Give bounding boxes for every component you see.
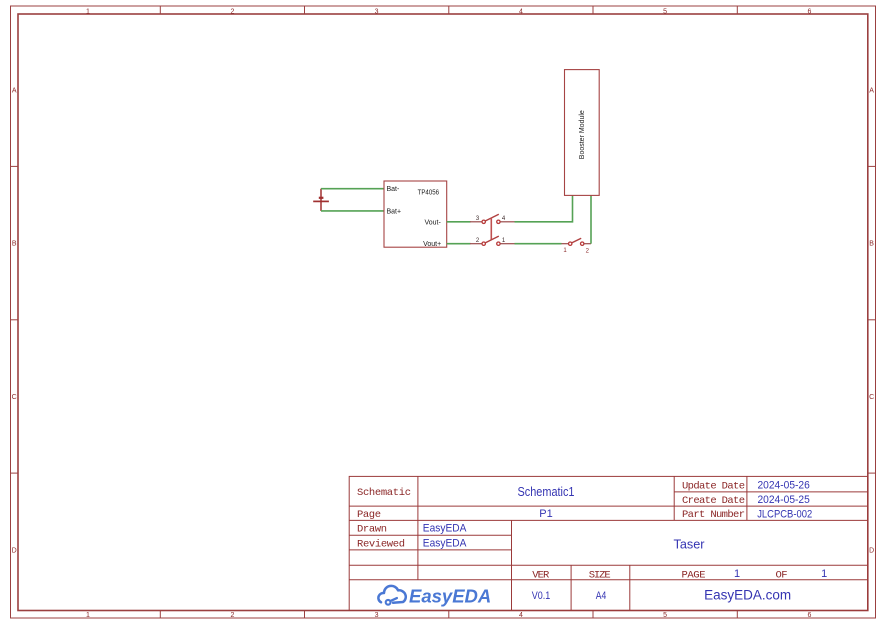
svg-text:5: 5 xyxy=(663,9,667,16)
svg-text:V0.1: V0.1 xyxy=(532,590,551,602)
wire Vout+ to switch xyxy=(447,243,471,245)
switch S1 DPST xyxy=(470,214,515,245)
svg-text:EasyEDA: EasyEDA xyxy=(423,523,467,535)
svg-text:Vout-: Vout- xyxy=(424,219,441,226)
svg-text:Create Date: Create Date xyxy=(682,495,745,507)
title block values xyxy=(423,480,827,603)
svg-text:B: B xyxy=(12,241,17,248)
svg-text:4: 4 xyxy=(519,612,523,619)
svg-text:2024-05-26: 2024-05-26 xyxy=(758,480,810,492)
svg-text:Update Date: Update Date xyxy=(682,480,745,492)
svg-text:5: 5 xyxy=(663,612,667,619)
wire switch S2 pin2 to booster xyxy=(590,195,592,243)
frame row letters right xyxy=(869,87,874,554)
svg-text:1: 1 xyxy=(821,568,827,580)
title block labels xyxy=(357,480,788,581)
svg-text:2: 2 xyxy=(230,612,234,619)
frame column ticks top xyxy=(160,6,737,14)
svg-text:C: C xyxy=(12,394,17,401)
svg-text:EasyEDA.com: EasyEDA.com xyxy=(704,587,791,602)
svg-text:D: D xyxy=(12,547,17,554)
svg-text:6: 6 xyxy=(807,9,811,16)
svg-text:3: 3 xyxy=(375,612,379,619)
frame row ticks left xyxy=(11,166,19,473)
svg-text:A4: A4 xyxy=(596,590,607,602)
svg-text:Page: Page xyxy=(357,509,381,521)
svg-text:2024-05-25: 2024-05-25 xyxy=(758,494,810,506)
wire Bat- net xyxy=(321,188,384,190)
svg-text:A: A xyxy=(12,87,17,94)
svg-text:B: B xyxy=(869,241,874,248)
svg-text:3: 3 xyxy=(375,9,379,16)
svg-text:EasyEDA: EasyEDA xyxy=(409,586,491,607)
TP4056 module U1 xyxy=(384,181,447,248)
wire Bat+ net xyxy=(321,210,384,212)
svg-text:JLCPCB-002: JLCPCB-002 xyxy=(757,508,812,520)
svg-text:Part Number: Part Number xyxy=(682,509,745,521)
svg-text:Reviewed: Reviewed xyxy=(357,538,405,550)
booster module U2 xyxy=(565,70,600,196)
frame row ticks right xyxy=(868,166,876,473)
svg-text:6: 6 xyxy=(807,612,811,619)
wire switch S1 pin1 to switch S2 xyxy=(515,243,562,245)
svg-text:Taser: Taser xyxy=(674,537,706,552)
svg-text:1: 1 xyxy=(86,9,90,16)
svg-text:Schematic: Schematic xyxy=(357,487,411,499)
svg-text:1: 1 xyxy=(734,568,740,580)
EasyEDA logo xyxy=(378,586,405,605)
frame row letters left xyxy=(12,87,17,554)
switch S2 SPST xyxy=(562,238,592,254)
wire Vout- to switch xyxy=(447,221,471,223)
svg-text:1: 1 xyxy=(86,612,90,619)
battery B1 xyxy=(313,189,329,211)
svg-text:Booster Module: Booster Module xyxy=(579,110,586,159)
frame column numbers top xyxy=(86,9,811,16)
svg-text:D: D xyxy=(869,547,874,554)
wire switch S1 pin4 to booster xyxy=(515,195,573,221)
svg-text:4: 4 xyxy=(519,9,523,16)
svg-text:Bat-: Bat- xyxy=(387,186,401,193)
svg-text:P1: P1 xyxy=(539,508,552,520)
svg-text:C: C xyxy=(869,394,874,401)
svg-text:OF: OF xyxy=(776,570,788,582)
frame column ticks bottom xyxy=(160,611,737,619)
svg-text:Bat+: Bat+ xyxy=(387,208,402,215)
svg-text:Vout+: Vout+ xyxy=(423,241,441,248)
svg-text:SIZE: SIZE xyxy=(589,570,611,582)
title block grid xyxy=(349,476,868,610)
svg-text:PAGE: PAGE xyxy=(682,570,706,582)
svg-text:Drawn: Drawn xyxy=(357,524,387,536)
svg-text:TP4056: TP4056 xyxy=(418,187,440,196)
frame column numbers bottom xyxy=(86,612,811,619)
svg-text:2: 2 xyxy=(230,9,234,16)
svg-text:A: A xyxy=(869,87,874,94)
svg-text:VER: VER xyxy=(532,570,550,582)
svg-text:EasyEDA: EasyEDA xyxy=(423,537,467,549)
svg-text:Schematic1: Schematic1 xyxy=(518,484,575,499)
